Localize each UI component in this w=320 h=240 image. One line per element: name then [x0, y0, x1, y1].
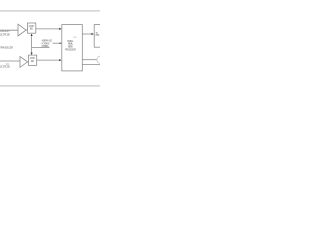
svg-text:PROCESSOR: PROCESSOR [65, 48, 76, 52]
op-amp A1 (top instrumentation amplifier) [18, 24, 26, 36]
wire: A2 output to ADC2 [27, 61, 30, 63]
svg-text:HOST: HOST [95, 34, 100, 37]
wire: DSP lower output to right edge [82, 63, 100, 65]
wire: A1 output to ADC1 [26, 29, 28, 31]
svg-text:TRANSDUCER: TRANSDUCER [0, 45, 14, 49]
svg-text:ELECTRODE: ELECTRODE [0, 65, 10, 69]
bottom horizontal rule [0, 85, 100, 87]
wire: DSP to connector J1 [82, 59, 97, 61]
U3 digital signal processor box [62, 25, 83, 71]
arrowhead of label leader into DSP [60, 42, 62, 44]
wire: bottom electrode input [0, 60, 20, 62]
arrowhead into DSP bottom input [59, 59, 61, 61]
svg-text:ADC: ADC [30, 27, 34, 31]
svg-text:ADC: ADC [31, 59, 35, 63]
top horizontal rule [0, 10, 100, 12]
wire: DSP to host box [82, 33, 91, 35]
ADC U2 (bottom 24-BIT ADC box) [29, 55, 37, 65]
wire: ADC1 output to DSP [36, 28, 60, 30]
connector J1 (circle, clipped at right edge) [97, 56, 105, 64]
wire: top electrode input [0, 29, 18, 31]
svg-text:CONTROL: CONTROL [42, 44, 50, 48]
wire: control branch down into ADC2 [31, 47, 33, 53]
svg-text:ELECTRODE: ELECTRODE [0, 32, 10, 36]
arrowhead into DSP top input [59, 28, 61, 30]
arrowhead into host box [92, 33, 94, 35]
op-amp A2 (bottom instrumentation amplifier) [20, 57, 28, 68]
arrowhead up into ADC1 [31, 34, 33, 36]
U4 host interface box (clipped at right edge) [94, 25, 101, 48]
wire: control branch up into ADC1 [31, 36, 33, 47]
wire: label leader to DSP [53, 42, 62, 44]
ADC U1 (top 24-BIT ADC box) [28, 23, 36, 33]
wire: ADC2 output to DSP [37, 59, 60, 61]
faint print artifact above DSP text [73, 37, 77, 38]
wire: control net horizontal [32, 46, 50, 48]
arrowhead down into ADC2 [31, 53, 33, 55]
